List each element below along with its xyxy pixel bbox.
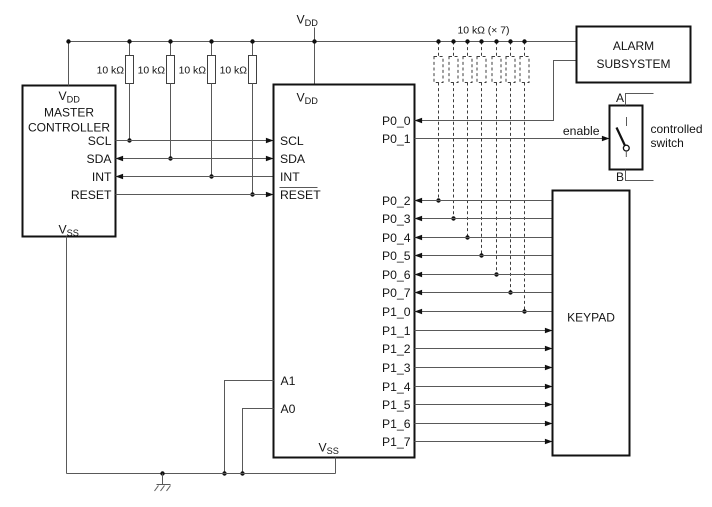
svg-text:P0_0: P0_0 [382,114,411,128]
junction dot: R2 bottom on bus wire [168,156,172,160]
svg-text:RESET: RESET [71,188,112,202]
svg-text:VDD: VDD [297,13,319,29]
junction dot: A0 on ground rail [240,471,244,475]
wire: P1_6 net (U1 to keypad) [415,423,553,425]
wire: P1_1 net (U1 to keypad) [415,330,553,332]
svg-text:controlled: controlled [651,122,703,136]
alarm subsystem block [577,27,691,83]
wire: P1_3 net (U1 to keypad) [415,367,553,369]
svg-text:enable: enable [563,124,600,138]
svg-text:A: A [616,91,624,105]
wire: switch terminal A stub [626,94,654,106]
arrowhead: SDA into master [116,156,124,162]
svg-text:10 kΩ: 10 kΩ [179,65,207,76]
svg-text:KEYPAD: KEYPAD [567,311,615,325]
arrowhead: SCL into U1 [266,138,274,144]
arrowhead: P0_2 into U1 [415,198,423,204]
arrowhead: P1_6 into keypad [545,421,553,427]
wire: master VDD to rail [68,42,70,86]
svg-text:SUBSYSTEM: SUBSYSTEM [596,57,670,71]
junction dot: R7 top on VDD rail [465,39,469,43]
svg-text:P1_6: P1_6 [382,417,411,431]
I/O expander IC U1 [274,85,415,458]
resistor R2 10 kΩ pull-up [170,42,172,56]
svg-text:P1_2: P1_2 [382,342,411,356]
svg-text:RESET: RESET [280,188,321,202]
resistor R3 10 kΩ pull-up [211,42,213,56]
arrowhead: P0_3 into U1 [415,216,423,222]
junction dot: A1 on ground rail [222,471,226,475]
svg-text:P0_1: P0_1 [382,132,411,146]
svg-text:A0: A0 [281,402,296,416]
arrowhead: SDA into U1 [266,156,274,162]
junction dot: R6 bottom on P0 line [451,216,455,220]
svg-text:P0_7: P0_7 [382,286,411,300]
wire: P0_0 net to alarm subsystem [415,61,577,121]
wire: P0_6 net (U1 to keypad) [415,274,553,276]
svg-text:switch: switch [651,136,684,150]
wire: P1_7 net (U1 to keypad) [415,441,553,443]
arrowhead: P1_5 into keypad [545,402,553,408]
wire: P0_4 net (U1 to keypad) [415,237,553,239]
resistor R10 10 kΩ dashed pull-up [510,42,512,57]
wire: master VSS down to ground rail [66,237,68,474]
svg-text:SCL: SCL [280,134,304,148]
svg-text:MASTER: MASTER [44,106,94,120]
svg-text:INT: INT [92,170,112,184]
resistor R5 10 kΩ dashed pull-up [438,42,440,57]
resistor R8 10 kΩ dashed pull-up [481,42,483,57]
junction dot: R5 top on VDD rail [436,39,440,43]
arrowhead: P0_4 into U1 [415,235,423,241]
wire: VSS ground rail (bottom) [67,473,336,475]
arrowhead: P0_0 into U1 [415,118,423,124]
wire: P1_5 net (U1 to keypad) [415,404,553,406]
controlled switch block S1 [610,106,643,170]
wire: P0_5 net (U1 to keypad) [415,255,553,257]
wire: SDA net (bidirectional master/U1) [116,158,274,160]
resistor R6 10 kΩ dashed pull-up [453,42,455,57]
wire: P0_3 net (U1 to keypad) [415,218,553,220]
arrowhead: P0_5 into U1 [415,253,423,259]
wire: P0_7 net (U1 to keypad) [415,292,553,294]
arrowhead: INT into master [116,174,124,180]
svg-text:P1_1: P1_1 [382,324,411,338]
wire: A1 strap to ground rail [225,381,274,474]
svg-text:A1: A1 [281,374,296,388]
resistor R4 10 kΩ pull-up [252,42,254,56]
ground symbol [160,471,164,475]
svg-text:10 kΩ: 10 kΩ [97,65,125,76]
arrowhead: P1_0 into U1 [415,309,423,315]
svg-text:P0_4: P0_4 [382,231,411,245]
junction dot: R9 bottom on P0 line [494,272,498,276]
wire: P0_1 enable net to controlled switch [415,138,610,140]
junction dot: R5 bottom on P0 line [436,198,440,202]
wire: INT net (U1 to master) [116,176,274,178]
arrowhead: P1_3 into keypad [545,365,553,371]
svg-text:10 kΩ: 10 kΩ [138,65,166,76]
junction dot: master VDD at rail end [66,39,70,43]
master controller block U2 [23,86,116,237]
arrowhead: P1_4 into keypad [545,384,553,390]
svg-text:P0_2: P0_2 [382,194,411,208]
wire: SCL net (master to U1) [116,140,274,142]
junction dot: R3 top on VDD rail [209,39,213,43]
arrowhead: enable into switch [602,136,610,142]
wire: RESET net (master to U1) [116,194,274,196]
arrowhead: RESET into U1 [266,192,274,198]
wire: switch terminal B stub [626,170,654,181]
svg-text:P0_3: P0_3 [382,212,411,226]
junction dot: R10 bottom on P0 line [508,290,512,294]
arrowhead: P0_6 into U1 [415,272,423,278]
arrowhead: P1_2 into keypad [545,346,553,352]
svg-text:SDA: SDA [280,152,306,166]
svg-text:P1_4: P1_4 [382,380,411,394]
junction dot: R10 top on VDD rail [508,39,512,43]
svg-text:ALARM: ALARM [613,39,654,53]
wire: A0 strap to ground rail [243,409,274,474]
svg-text:P1_0: P1_0 [382,305,411,319]
svg-text:P1_5: P1_5 [382,398,411,412]
resistor R7 10 kΩ dashed pull-up [467,42,469,57]
junction dot: R6 top on VDD rail [451,39,455,43]
svg-text:P1_7: P1_7 [382,435,411,449]
svg-text:SCL: SCL [88,134,112,148]
junction dot: R1 bottom on bus wire [127,138,131,142]
svg-text:B: B [616,170,624,184]
svg-text:SDA: SDA [86,152,112,166]
wire: P1_2 net (U1 to keypad) [415,348,553,350]
junction dot: R11 bottom on P0 line [522,309,526,313]
junction dot: R2 top on VDD rail [168,39,172,43]
wire: U1 VSS down to ground rail [335,458,337,474]
junction dot: R3 bottom on bus wire [209,174,213,178]
resistor R11 10 kΩ dashed pull-up [524,42,526,57]
junction dot: R4 top on VDD rail [250,39,254,43]
switch symbol (SPST lever and contacts) [626,117,628,126]
svg-text:P0_5: P0_5 [382,249,411,263]
keypad block [553,191,630,456]
wire: VDD rail (top supply bus) [69,41,577,43]
junction dot: R11 top on VDD rail [522,39,526,43]
junction dot: R4 bottom on bus wire [250,192,254,196]
arrowhead: P1_1 into keypad [545,328,553,334]
junction dot: VDD stub on rail [312,39,316,43]
svg-text:10 kΩ (× 7): 10 kΩ (× 7) [458,26,510,37]
svg-text:CONTROLLER: CONTROLLER [28,121,110,135]
resistor R9 10 kΩ dashed pull-up [496,42,498,57]
junction dot: R9 top on VDD rail [494,39,498,43]
junction dot: R8 bottom on P0 line [479,253,483,257]
svg-text:INT: INT [280,170,300,184]
svg-text:P0_6: P0_6 [382,268,411,282]
wire: VDD stub from label through rail down to U1 VDD pin [314,28,316,85]
junction dot: R7 bottom on P0 line [465,235,469,239]
arrowhead: P1_7 into keypad [545,439,553,445]
junction dot: R1 top on VDD rail [127,39,131,43]
wire: P1_0 net (U1 to keypad) [415,311,553,313]
svg-text:10 kΩ: 10 kΩ [220,65,248,76]
arrowhead: P0_7 into U1 [415,290,423,296]
wire: P0_2 net (U1 to keypad) [415,200,553,202]
wire: P1_4 net (U1 to keypad) [415,386,553,388]
svg-text:P1_3: P1_3 [382,361,411,375]
junction dot: R8 top on VDD rail [479,39,483,43]
resistor R1 10 kΩ pull-up [129,42,131,56]
